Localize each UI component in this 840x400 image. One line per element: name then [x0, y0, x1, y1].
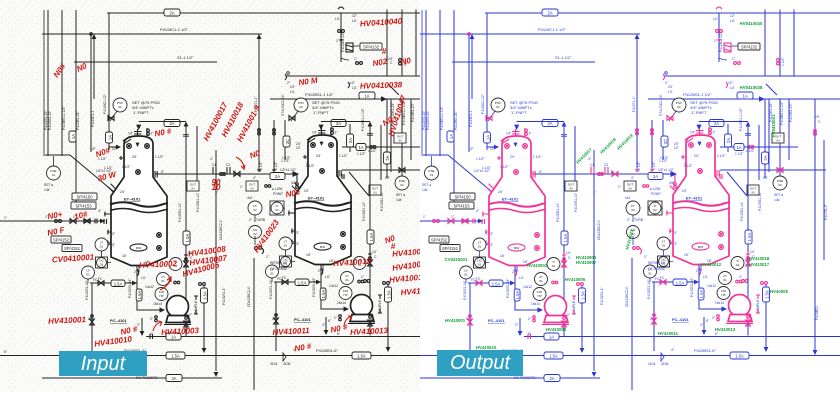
svg-text:Output: Output [450, 352, 511, 374]
svg-text:Input: Input [81, 353, 127, 375]
